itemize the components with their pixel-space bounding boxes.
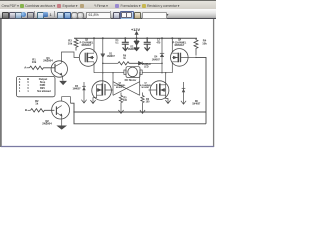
svg-text:MOSFET: MOSFET (82, 45, 92, 47)
svg-text:1N4007: 1N4007 (128, 48, 137, 51)
svg-text:B: B (27, 77, 29, 81)
svg-text:A: A (19, 77, 21, 81)
svg-text:A: A (24, 66, 26, 70)
svg-text:P-CHANNEL: P-CHANNEL (173, 41, 187, 44)
svg-text:Output: Output (39, 77, 48, 81)
svg-text:1N4007: 1N4007 (72, 87, 81, 90)
svg-text:100: 100 (146, 102, 151, 104)
svg-text:2N3904: 2N3904 (43, 58, 53, 62)
svg-text:1N4007: 1N4007 (107, 55, 116, 58)
svg-text:MOSFET: MOSFET (116, 87, 125, 89)
svg-text:10k: 10k (32, 60, 37, 64)
svg-text:100: 100 (123, 100, 128, 102)
svg-text:C2: C2 (157, 40, 161, 42)
svg-text:LED: LED (144, 67, 149, 69)
svg-text:470: 470 (156, 41, 161, 44)
svg-text:0.1: 0.1 (115, 43, 119, 45)
svg-text:+12V: +12V (131, 28, 140, 32)
svg-text:B: B (25, 108, 27, 112)
svg-text:2N3904: 2N3904 (42, 122, 52, 126)
svg-text:1k: 1k (35, 101, 38, 105)
svg-text:1k: 1k (123, 58, 126, 60)
svg-text:Not allowed: Not allowed (37, 90, 51, 93)
svg-text:10k: 10k (68, 41, 73, 45)
svg-text:DC Motor: DC Motor (125, 78, 137, 82)
svg-text:R6: R6 (146, 99, 150, 101)
svg-text:D4: D4 (154, 56, 158, 59)
svg-text:D6: D6 (195, 101, 199, 103)
svg-text:1: 1 (27, 90, 29, 93)
svg-text:1N4007: 1N4007 (192, 103, 201, 106)
svg-text:1N4007: 1N4007 (152, 58, 161, 61)
svg-text:1: 1 (19, 90, 21, 93)
svg-text:R5: R5 (124, 98, 128, 100)
svg-text:MOSFET: MOSFET (175, 45, 185, 47)
svg-text:MOSFET: MOSFET (142, 87, 151, 89)
svg-text:10k: 10k (202, 42, 207, 46)
svg-text:Q4: Q4 (178, 39, 182, 42)
svg-text:Q5: Q5 (85, 40, 89, 42)
svg-text:P-CHANNEL: P-CHANNEL (80, 41, 94, 44)
